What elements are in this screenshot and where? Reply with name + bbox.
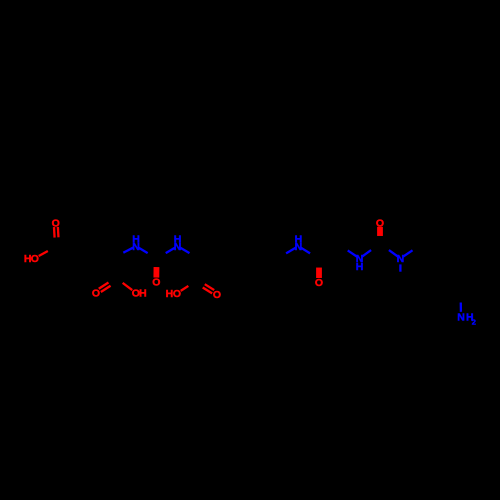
svg-text:O: O [315, 277, 323, 289]
bond N2 to lysine alpha-C [180, 248, 189, 253]
double bond C=O of gamma-carboxyl [57, 227, 60, 237]
bond N5 to benzyl CH2 [403, 250, 412, 256]
svg-text:O: O [376, 217, 384, 229]
svg-text:O: O [213, 289, 221, 301]
double bond C=O of amide [316, 268, 322, 278]
bond N4 to glycine CH2 [348, 250, 357, 256]
svg-text:2: 2 [472, 318, 476, 327]
bond N1 to glutamate alpha-C [123, 248, 133, 253]
bond N1 to urea C [139, 248, 148, 253]
bond N3 to lysine side-chain CH2 [286, 248, 296, 254]
bond N2 to urea C [166, 248, 175, 253]
double bond C=O of right urea [377, 227, 383, 236]
svg-text:N: N [397, 253, 405, 265]
svg-text:N: N [132, 241, 140, 253]
svg-text:N: N [457, 312, 465, 324]
svg-text:O: O [92, 288, 100, 300]
bond C-OH of glutamate alpha-carboxyl [123, 283, 133, 290]
bond N5 to right urea C [389, 250, 398, 257]
svg-text:O: O [31, 253, 39, 265]
svg-text:H: H [139, 288, 147, 300]
double bond C=O of lysine alpha-carboxyl [203, 287, 212, 293]
svg-text:N: N [174, 241, 182, 253]
svg-text:N: N [295, 241, 303, 253]
double bond C=O of central urea [153, 267, 159, 278]
svg-text:O: O [52, 218, 60, 230]
bond N4 to right urea C [362, 250, 371, 257]
svg-text:O: O [173, 288, 181, 300]
bond N5 to N-methyl [399, 264, 401, 271]
bond N3 to amide C [301, 248, 310, 254]
svg-text:O: O [152, 277, 160, 289]
bond aniline N to ring [460, 303, 462, 312]
double bond C=O of glutamate alpha-carboxyl [99, 282, 109, 288]
bond HO-C of lysine alpha-carboxyl [181, 286, 189, 291]
bond HO-C of gamma-carboxyl [39, 251, 48, 256]
svg-text:H: H [356, 261, 364, 273]
